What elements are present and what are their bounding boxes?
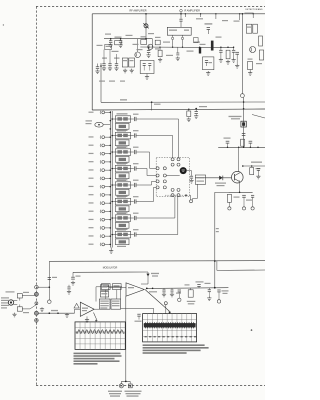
resistor to terminal 1 [227,194,231,202]
ladder bus left line [109,111,111,248]
input terminal jack 1 [102,111,105,114]
speck [251,329,253,331]
selector contact 1 [35,285,39,289]
switch contact [177,194,180,197]
svg-text:MODULATOR: MODULATOR [103,267,118,270]
main B+ bus horizontal [50,260,266,263]
speaker jack symbol [119,384,123,388]
base input wire [195,177,231,179]
svg-text:RF AMPLIFIER: RF AMPLIFIER [129,9,146,12]
coupling capacitor C8 [180,14,182,19]
capacitor to terminal 3 [251,194,254,196]
input terminal jack 5 [102,144,105,147]
second scope feed terminal [164,302,167,305]
link terminal [190,200,193,203]
feedback resistor Rb [113,284,122,290]
wire exiting right from AM det [252,115,265,119]
right scope caption [143,344,205,346]
label on AGC bus [120,99,127,100]
junction node AGC [100,65,102,67]
input network box [195,175,205,184]
resistor box to ground mid [187,111,191,117]
RF-IF link wire [151,39,153,47]
capacitor C2 to ground [110,39,112,41]
inner AGC wire horizontal bus [101,101,265,103]
collector wire Q5 [238,147,240,171]
AM detector diode block [243,98,245,148]
diode D1 pair [219,176,222,180]
scope feed wire [121,307,154,309]
resistor R5 to ground [158,50,162,57]
bypass cap to ground IF [177,47,179,52]
arrow into left scope [94,313,98,321]
dashed enclosure border bottom [36,384,265,386]
input terminal jack 12 [102,202,105,205]
filter block F8 upper box [115,231,130,238]
antenna terminal [180,9,183,12]
capacitor to terminal 2 [242,194,246,196]
filter box with capacitor [203,57,214,70]
wire from box down to link terminal [197,184,199,198]
input terminal jack 11 [102,194,105,197]
feedback resistor Ra [102,284,111,290]
ladder ground [110,248,112,250]
resistor R9 [253,24,258,33]
dashed mechanical link to pot [165,194,191,196]
transistor Q5 audio [232,171,244,183]
wire row5 to switch [139,184,151,186]
IF transformer T1 can [167,27,191,35]
filter block F7 through wire [112,217,134,219]
IF transistor Q3a dark blob [199,48,201,54]
tuner outer box left edge [91,14,93,110]
input terminal jack 9 [102,177,105,180]
cartridge lead top [14,300,18,302]
ladder input jack oval [95,122,103,127]
filter block F7 output capacitor [133,216,135,220]
detector misc box [248,62,253,70]
ground under detector [249,71,251,73]
power amp module box B [111,299,121,309]
filter block F1 upper box [115,116,130,123]
capacitor C11 to ground [235,51,239,53]
detector labels [245,13,254,14]
filter block F8 lower box [115,239,129,245]
filter block F2 output capacitor [133,133,135,137]
input terminal jack 16 [102,235,105,238]
switch rotor blob S1 [180,167,187,174]
transistor Q1 RF amp [135,52,141,58]
emitter wire Q5 [239,182,241,192]
resistor R6 label 47K [205,23,213,24]
capacitor C9 to ground [220,47,222,50]
resistor R2 [122,58,128,67]
selector contact 5 [35,319,39,323]
wire row6 to switch [139,201,153,203]
input terminal jack 14 [102,218,105,221]
feedback wire [96,286,122,288]
switch contact [163,180,166,183]
capacitor to jack b3 [178,289,181,291]
wire row8 to switch return [139,234,178,236]
input terminal jack 10 [102,185,105,188]
capacitor C7 to ground [148,47,150,50]
filter block F3 upper box [115,149,130,156]
resistor below supply [250,168,254,175]
junction on lower bus [195,108,197,110]
wire row2 to switch [139,135,172,137]
second scope feed drop [165,305,167,314]
filter block F6 lower box [115,206,129,212]
capacitor above feed 2 [249,140,253,142]
filter block F2 upper box [115,132,130,139]
filter block F2 through wire [112,135,134,137]
switch contact [171,188,174,191]
switch gang dashed outline [156,158,189,197]
load resistor bottom [17,307,22,311]
switch contact [163,167,166,170]
input terminal jack 4 [102,136,105,139]
filter block F4 output capacitor [133,166,135,170]
resistor R8 [246,24,252,33]
modulator vertical to bottom jacks [125,296,127,381]
filter block F1 through wire [112,118,134,120]
filter block F3 through wire [112,151,134,153]
volume pot box [188,290,193,297]
resistor R11 [259,50,263,60]
switch contact [156,167,159,170]
filter block F8 output capacitor [133,232,135,236]
left scope caption [74,353,121,355]
RF signal wire [104,38,152,40]
filter block F4 upper box [115,165,130,172]
resistor above feed [241,139,245,146]
supply wire right [243,165,265,167]
resistor R1 [115,41,122,45]
bypass capacitor row C6 [116,61,118,64]
input terminal jack 6 [102,152,105,155]
bottom jack tee [121,380,130,382]
power amp module box A [99,299,110,309]
tuning capacitor C1 on feed wire [145,14,147,39]
svg-text:IF AMPLIFIER: IF AMPLIFIER [184,9,200,12]
amp ground 2 [66,313,68,315]
left scope bezel [75,322,125,350]
cartridge ground [14,313,16,315]
modulator label under wire [149,291,157,292]
filter block F2 lower box [115,140,129,146]
capacitor C12 to ground off bus [195,109,197,112]
RF bias box [105,44,112,49]
switch contact [177,188,180,191]
warning triangle [74,303,79,308]
detector output vertical wire [241,14,243,94]
switch contact [177,163,180,166]
zener to op-amp link [147,280,149,285]
wire row4 to switch [139,168,147,170]
input terminal jack 3 [110,128,112,130]
tape bus vertical wire [214,192,216,287]
switch contact [177,158,180,161]
junction AFC stub [151,101,153,103]
capacitor C10 to ground [233,48,235,51]
capacitor to ground b2 [171,288,173,289]
resistor R7 to ground [226,50,230,59]
input terminal jack 15 [102,227,105,230]
diagonal arrow to right scope [145,290,171,313]
selector contact 3 [35,302,38,305]
filter block F7 upper box [115,215,130,222]
filter block F1 output capacitor [133,117,135,121]
dashed enclosure border left [35,7,37,386]
switch contact [156,174,159,177]
capacitor off rotor [190,175,193,177]
wire contact to amp input [36,312,74,314]
output jack symbol [128,384,132,388]
misc labels IF strip [163,42,170,43]
stub wires to cap row [103,50,105,61]
input terminal jack 8 [102,169,105,172]
capacitor to ground b4 [208,288,210,290]
filter block F6 output capacitor [133,199,135,203]
filter block F5 through wire [112,184,134,186]
bypass capacitor row C5 [109,61,111,64]
IF bias box [194,38,199,43]
IF cluster labels [155,48,161,49]
audio output wire [147,287,229,290]
switch contact [171,194,174,197]
cartridge lead bottom [14,303,18,305]
load resistor top [17,294,22,298]
filter block F7 lower box [115,222,129,228]
wire row1 to switch [139,118,178,120]
top feed wire of AF stage [218,146,265,148]
ground under R3 [131,69,133,71]
filter block F5 lower box [115,189,129,195]
rotor output wire [187,170,192,172]
IF transistor Q3 dark [211,41,214,51]
filter block F5 output capacitor [133,183,135,187]
stub to emitter network [215,191,229,193]
decoupling cap left of amp [68,285,70,287]
bypass capacitor row C0 [97,64,99,67]
resistor R10 [259,36,263,46]
mixer transistor Q2 [148,44,153,49]
wire from middle contacts to rotor [166,175,179,177]
emitter network wire [228,191,252,193]
switch contact [163,186,166,189]
right scope lower trace dashes [145,336,147,338]
ladder bus right line [111,111,113,248]
filter block F3 output capacitor [133,150,135,154]
filter block F8 through wire [112,234,134,236]
ground under R2 [124,69,126,71]
oscillator coil box [141,40,147,45]
filter block F6 through wire [112,201,134,203]
RF cluster labels [105,34,111,35]
preamp op-amp U1 [80,302,94,316]
switch contact [163,174,166,177]
inter-box wires [105,290,107,299]
amp ground 1 [86,318,88,320]
zener diode feed [147,272,149,280]
feed stubs from box top [184,14,186,17]
input terminal jack 17 [102,243,105,246]
switch contact [156,186,159,189]
wire row3 to switch [139,151,149,153]
capacitor to ground b1 [163,288,165,289]
input select capacitor feed [48,261,50,300]
bottom jack labels [108,391,122,392]
modulator op-amp U2 [126,283,144,296]
supply wire top of amp [73,271,148,273]
tuner output terminal [241,94,245,98]
wires around amp [94,308,99,310]
filter block F3 lower box [115,156,129,162]
dashed enclosure border top [36,6,265,8]
capacitor C3 to ground [120,39,122,41]
capacitor and ground far right [257,167,260,169]
aux bus to right edge [217,269,265,271]
speck top left [3,24,4,25]
aux jack terminal [48,300,52,304]
input terminal jack 2 [110,120,112,122]
switch contact [171,163,174,166]
inner AGC wire vertical [100,63,102,102]
tuner outer box top edge [92,13,265,15]
capacitor C13 in AM det chain [242,133,246,135]
right scope burst band [144,323,196,327]
input terminal jack 7 [102,161,105,164]
amp decoupling capacitor [72,272,74,277]
capacitor above wire [196,281,204,282]
ground near jack [41,307,43,309]
tank box with two capacitors [140,61,154,74]
wire row7 to switch return [139,217,175,219]
filter block F1 lower box [115,123,129,129]
wire contact to feed [36,286,49,288]
filter block F4 lower box [115,173,129,179]
svg-text:DETECTOR AND: DETECTOR AND [245,8,263,11]
input capacitor before right scope [137,313,140,315]
selector contact 4 [34,311,38,315]
IF signal wire [140,46,234,49]
resistor R3 [129,58,135,67]
tuner outer box bottom edge / bus wire [92,109,265,110]
phono cartridge [8,300,13,305]
modulator input boxes [100,285,108,290]
left scope waveform trace [76,330,124,334]
bypass capacitor row C4 [103,61,105,64]
capacitor above feed 1 [226,140,230,142]
ground under filter box [207,71,209,73]
capacitor to jack b5 [217,289,220,291]
filter block F5 upper box [115,182,130,189]
filter block F6 upper box [115,198,130,205]
detector transistor Q4 [250,47,256,53]
filter block F4 through wire [112,168,134,170]
resistor R4 [155,40,160,45]
selector contact 2 [34,292,38,296]
right scope bezel [143,314,197,342]
switch contact [156,180,159,183]
label AM DETECTOR [229,116,242,117]
input terminal jack 13 [102,210,105,213]
switch contact [171,158,174,161]
